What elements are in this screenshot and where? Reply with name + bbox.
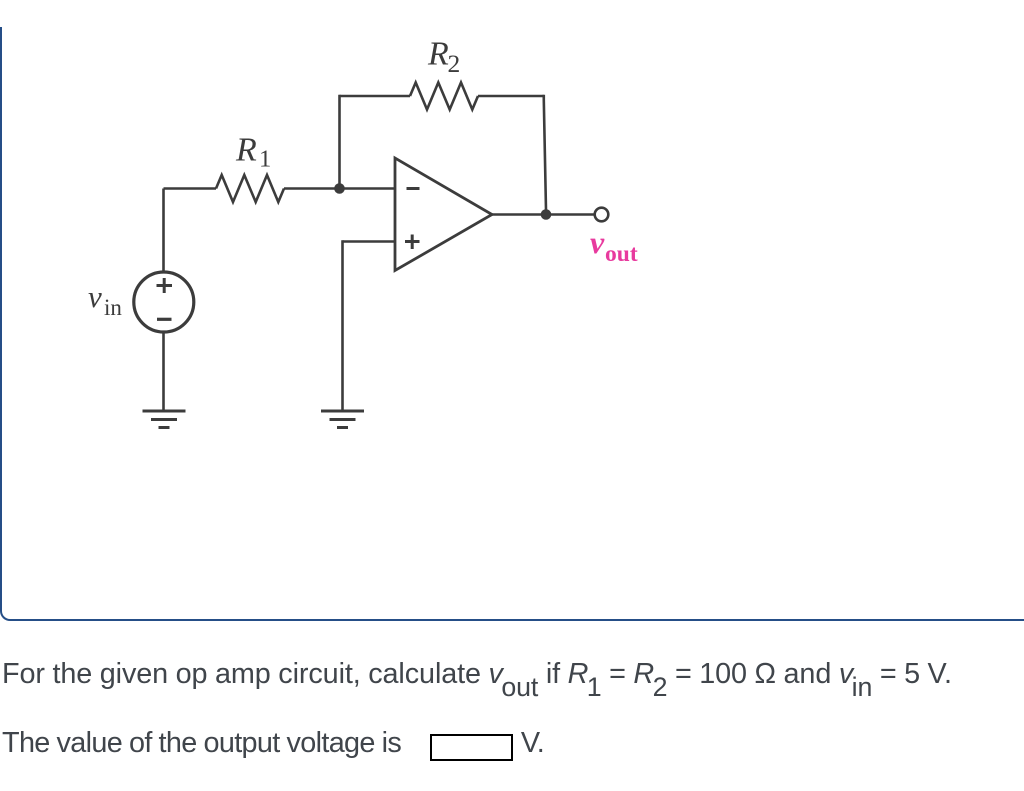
svg-text:1: 1 [259,146,271,173]
wire: noninverting input down to ground [341,240,344,411]
output terminal open circle [595,208,609,222]
svg-text:in: in [104,295,122,320]
panel border (answer region box, clipped top/right) [0,27,1024,621]
source + polarity [157,278,173,293]
ground (source) [143,411,186,428]
svg-text:v: v [88,279,102,314]
question line 1 [2,660,1022,689]
svg-text:R: R [235,132,257,169]
wire: feedback left vertical down to inverting node [338,95,341,189]
voltage source vin circle [134,272,194,332]
source - polarity [157,318,172,321]
wire: source top lead [162,189,165,274]
wire: input from source top to R1 [164,187,217,190]
svg-text:out: out [605,241,638,267]
op-amp noninverting (+) marker [405,235,420,250]
wire: op-amp noninverting input [343,240,396,243]
svg-text:2: 2 [448,49,461,78]
wire: op-amp output [492,213,595,216]
resistor R2 zigzag [410,83,478,110]
resistor R1 zigzag [216,175,284,202]
op-amp U1 triangle [395,158,492,271]
op-amp inverting (-) marker [407,187,420,190]
question line 2 with answer input box [2,729,1022,761]
node dot: output junction [541,209,552,220]
wire: R1 to op-amp inverting input [284,187,395,190]
wire: feedback top left segment [340,95,411,98]
wire: feedback top right segment [478,95,544,98]
node dot: inverting input junction [334,183,345,194]
svg-text:R: R [427,36,449,73]
ground (noninverting input) [321,411,364,428]
wire: feedback right vertical down to output node [544,95,546,215]
svg-text:v: v [590,224,605,260]
wire: source bottom lead to ground [162,331,165,411]
